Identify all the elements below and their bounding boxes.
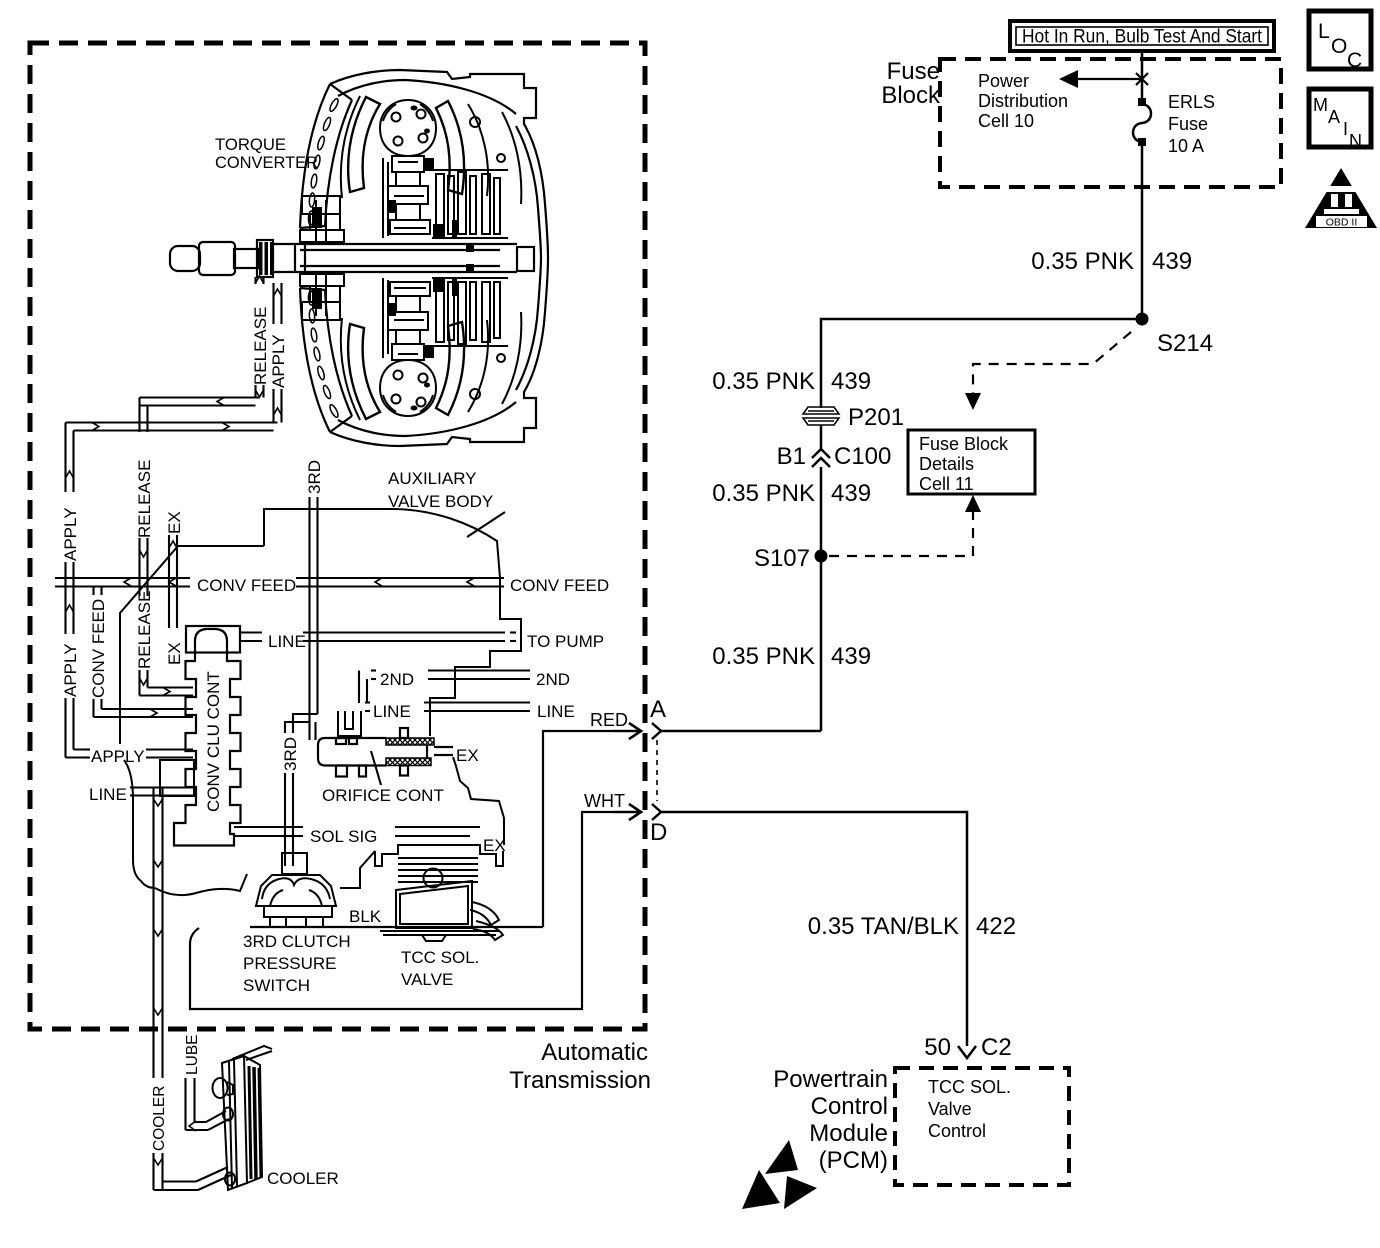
PCM dashed box	[895, 1068, 1069, 1185]
wire from hot box into fuse block	[1141, 51, 1144, 101]
hot-in-run box	[1010, 21, 1274, 51]
pipe ex vertical	[164, 503, 184, 666]
pipe conv feed horizontal	[55, 576, 609, 595]
svg-text:10 A: 10 A	[1168, 136, 1204, 156]
label APPLY inline with pipe to valve	[85, 747, 193, 766]
svg-text:439: 439	[831, 368, 871, 395]
converter housing outer bottom	[330, 258, 548, 446]
svg-text:Fuse Block: Fuse Block	[919, 434, 1009, 454]
svg-text:S107: S107	[754, 545, 810, 572]
svg-text:TO PUMP: TO PUMP	[527, 632, 604, 651]
pipe to pump	[241, 632, 605, 651]
svg-text:ORIFICE CONT: ORIFICE CONT	[322, 786, 444, 805]
wire wht from solenoid to D	[190, 791, 641, 1009]
wire 0.35 PNK 439 fuse to S214	[1141, 144, 1144, 319]
svg-text:CONV FEED: CONV FEED	[510, 576, 609, 595]
label TCC SOL. VALVE	[401, 948, 479, 989]
svg-text:439: 439	[831, 480, 871, 507]
svg-text:439: 439	[1152, 248, 1192, 275]
svg-text:0.35 PNK: 0.35 PNK	[712, 643, 815, 670]
svg-text:TCC SOL.: TCC SOL.	[401, 948, 479, 967]
3rd clutch pressure switch	[256, 853, 336, 927]
converter housing inner bottom	[338, 402, 516, 436]
svg-text:C100: C100	[834, 443, 891, 470]
svg-text:Block: Block	[881, 82, 941, 109]
pipe sol sig	[234, 827, 480, 846]
svg-text:Module: Module	[809, 1120, 888, 1147]
label Automatic Transmission	[509, 1039, 651, 1094]
pipe release mid vertical	[134, 398, 193, 696]
LOC icon	[1309, 11, 1371, 72]
wire S214 to P201	[821, 319, 1142, 408]
pipe horizontal release run	[140, 398, 260, 406]
stator support steps	[302, 196, 340, 214]
svg-text:N: N	[1349, 131, 1362, 151]
converter bottom lobe internals	[300, 274, 521, 420]
svg-text:Transmission: Transmission	[509, 1067, 651, 1094]
svg-text:CONV FEED: CONV FEED	[197, 576, 296, 595]
wire red from solenoid to A	[543, 710, 641, 927]
fuse ERLS 10A symbol	[1133, 98, 1151, 146]
clutch pack	[432, 169, 508, 171]
svg-text:RELEASE: RELEASE	[135, 591, 154, 669]
scalloped crescent bottom	[300, 288, 330, 432]
svg-text:Cell 10: Cell 10	[978, 111, 1034, 131]
svg-text:LINE: LINE	[268, 632, 306, 651]
svg-text:C: C	[1347, 49, 1362, 72]
ESD symbol	[742, 1140, 817, 1209]
wire A to vertical	[661, 730, 821, 733]
svg-text:0.35 PNK: 0.35 PNK	[712, 368, 815, 395]
svg-text:50: 50	[924, 1034, 951, 1061]
svg-text:Distribution: Distribution	[978, 91, 1068, 111]
label Power Distribution Cell 10	[978, 71, 1068, 131]
svg-text:Control: Control	[928, 1121, 986, 1141]
svg-text:EX: EX	[165, 642, 184, 665]
label Powertrain Control Module (PCM)	[773, 1066, 888, 1174]
wire blk solenoid	[250, 907, 543, 927]
svg-text:Power: Power	[978, 71, 1029, 91]
svg-text:SWITCH: SWITCH	[243, 976, 310, 995]
wire D to PCM 0.35 TAN/BLK 422	[661, 812, 967, 1046]
svg-text:3RD CLUTCH: 3RD CLUTCH	[243, 932, 351, 951]
svg-text:Automatic: Automatic	[541, 1039, 648, 1066]
torque converter assembly	[300, 70, 548, 446]
wire P201 to C100	[820, 425, 823, 449]
svg-text:A: A	[650, 696, 666, 723]
svg-text:2ND: 2ND	[536, 670, 570, 689]
inline connector P201	[803, 404, 904, 431]
fuse block dashed box	[940, 59, 1281, 187]
svg-text:LINE: LINE	[373, 702, 411, 721]
turbine hub stack	[392, 156, 424, 172]
svg-text:Cell 11: Cell 11	[919, 474, 974, 494]
pipe cooler vertical	[148, 788, 231, 1191]
label Fuse Block	[881, 58, 941, 109]
svg-text:CONV CLU CONT: CONV CLU CONT	[204, 671, 223, 812]
inner shell arcs	[468, 104, 488, 196]
converter blade slots top	[308, 98, 339, 225]
svg-text:(PCM): (PCM)	[819, 1147, 888, 1174]
pipe line right	[365, 702, 575, 721]
svg-text:EX: EX	[165, 511, 184, 534]
node S214	[1136, 313, 1214, 358]
tcc solenoid valve	[375, 845, 503, 941]
pipe apply from converter	[268, 283, 288, 423]
orifice valve springs hatched	[386, 738, 434, 766]
left turbine blade	[348, 97, 380, 192]
converter housing inner top	[338, 80, 516, 114]
converter top lobe internals	[300, 96, 521, 242]
node S107	[754, 545, 828, 572]
svg-text:0.35 PNK: 0.35 PNK	[1031, 248, 1134, 275]
orifice control valve	[318, 728, 453, 777]
svg-text:3RD: 3RD	[281, 737, 300, 771]
svg-text:AUXILIARY: AUXILIARY	[388, 469, 477, 488]
MAIN icon	[1309, 89, 1371, 151]
scalloped crescent top	[300, 84, 330, 228]
svg-text:Fuse: Fuse	[887, 58, 940, 85]
svg-text:422: 422	[976, 913, 1016, 940]
svg-text:OBD II: OBD II	[1326, 217, 1358, 229]
label 3RD CLUTCH PRESSURE SWITCH	[243, 932, 351, 995]
svg-text:COOLER: COOLER	[267, 1169, 339, 1188]
pipe apply left vertical	[60, 423, 90, 758]
svg-text:D: D	[650, 819, 667, 846]
pipe 2nd	[359, 670, 570, 703]
svg-text:COOLER: COOLER	[151, 1086, 168, 1151]
pipe horizontal apply run	[66, 423, 278, 431]
svg-text:TORQUE: TORQUE	[215, 135, 286, 154]
svg-text:ERLS: ERLS	[1168, 92, 1215, 112]
dashed pointer S107 to fuse block details	[829, 495, 981, 556]
svg-text:Control: Control	[811, 1093, 888, 1120]
svg-text:CONVERTER: CONVERTER	[215, 153, 318, 172]
svg-text:TCC SOL.: TCC SOL.	[928, 1077, 1011, 1097]
svg-text:L: L	[1318, 20, 1330, 43]
pipe 3rd lower jog	[280, 714, 318, 866]
svg-text:BLK: BLK	[349, 907, 382, 926]
fuse block details box	[908, 430, 1035, 494]
svg-text:C2: C2	[981, 1034, 1012, 1061]
svg-text:EX: EX	[483, 836, 506, 855]
svg-text:I: I	[1343, 119, 1348, 139]
svg-text:LINE: LINE	[537, 702, 575, 721]
svg-text:PRESSURE: PRESSURE	[243, 954, 337, 973]
svg-text:VALVE BODY: VALVE BODY	[388, 492, 493, 511]
svg-text:APPLY: APPLY	[61, 507, 80, 561]
right pump blade	[436, 101, 464, 194]
converter input shaft	[170, 240, 534, 277]
svg-text:S214: S214	[1157, 330, 1213, 357]
converter blade slots bottom	[308, 291, 339, 418]
conv clutch control valve	[174, 626, 241, 846]
pipe conv feed vertical	[88, 587, 193, 718]
svg-text:Fuse: Fuse	[1168, 114, 1208, 134]
pipe line left	[89, 785, 194, 804]
svg-text:RELEASE: RELEASE	[135, 460, 154, 538]
dashed pointer S214 to fuse block details	[965, 332, 1131, 410]
svg-text:0.35 PNK: 0.35 PNK	[712, 480, 815, 507]
label ERLS Fuse 10 A	[1168, 92, 1215, 156]
svg-text:CONV FEED: CONV FEED	[89, 599, 108, 698]
svg-text:LUBE: LUBE	[184, 1035, 201, 1076]
arrow to power distribution	[1059, 70, 1148, 88]
svg-text:A: A	[1328, 107, 1340, 127]
label CONV CLU CONT	[202, 666, 223, 814]
pipe release from converter	[250, 276, 270, 398]
connector C2 pin 50	[924, 1034, 1011, 1061]
label ORIFICE CONT with pointer	[322, 751, 444, 805]
svg-text:APPLY: APPLY	[91, 747, 145, 766]
dashed link A to D	[656, 740, 658, 801]
svg-text:VALVE: VALVE	[401, 970, 453, 989]
connector A	[614, 696, 666, 739]
pipe lube	[184, 1035, 229, 1132]
transmission dashed box	[30, 43, 645, 1029]
svg-text:Powertrain: Powertrain	[773, 1066, 888, 1093]
cooler radiator	[213, 1046, 273, 1190]
svg-text:O: O	[1331, 35, 1347, 58]
svg-text:RELEASE: RELEASE	[251, 307, 270, 385]
wire S107 to A	[820, 556, 823, 731]
connector D	[614, 804, 667, 846]
svg-text:LINE: LINE	[89, 785, 127, 804]
label TORQUE CONVERTER	[215, 135, 318, 172]
svg-text:EX: EX	[456, 746, 479, 765]
converter housing outer top	[330, 70, 548, 258]
svg-text:RED: RED	[590, 710, 628, 730]
svg-text:2ND: 2ND	[380, 670, 414, 689]
valve body outline	[120, 509, 521, 895]
pipe 3rd upper	[304, 449, 324, 740]
orifice inlet channel	[338, 711, 361, 736]
svg-text:0.35 TAN/BLK: 0.35 TAN/BLK	[808, 913, 959, 940]
OBD II icon	[1305, 168, 1377, 229]
svg-text:B1: B1	[777, 443, 806, 470]
svg-text:Details: Details	[919, 454, 974, 474]
svg-text:WHT: WHT	[584, 791, 625, 811]
svg-text:3RD: 3RD	[305, 460, 324, 494]
damper hub	[380, 100, 436, 156]
svg-text:M: M	[1313, 95, 1328, 115]
svg-text:P201: P201	[848, 404, 904, 431]
svg-text:APPLY: APPLY	[269, 334, 288, 388]
label AUXILIARY VALVE BODY	[388, 469, 505, 537]
svg-text:APPLY: APPLY	[61, 643, 80, 697]
svg-text:Valve: Valve	[928, 1099, 972, 1119]
svg-text:Hot In Run, Bulb Test And Star: Hot In Run, Bulb Test And Start	[1022, 27, 1263, 48]
wire C100 to S107	[820, 467, 823, 556]
valve inlet port block	[160, 760, 194, 796]
svg-text:439: 439	[831, 643, 871, 670]
svg-text:SOL SIG: SOL SIG	[310, 827, 377, 846]
connector C100 pin B1	[777, 443, 892, 470]
